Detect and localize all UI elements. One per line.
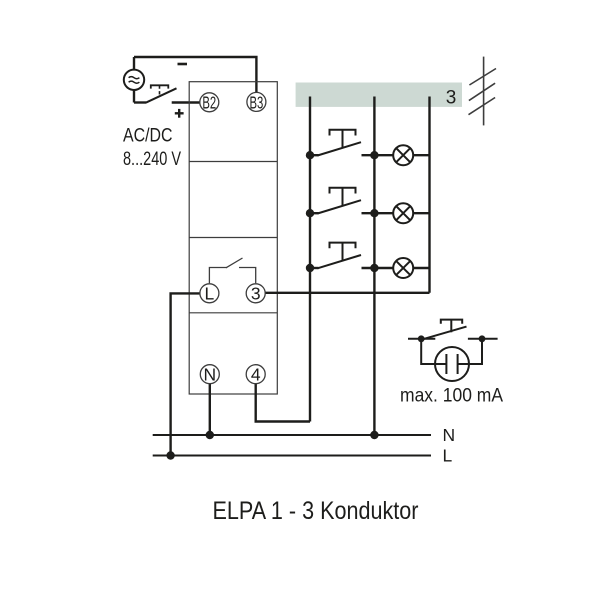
wire: terminal N to line N [209,384,211,435]
wire: terminal 4 to push buttons [256,384,310,422]
AC/DC source G1 [124,57,144,103]
junction S4 left [418,335,425,342]
bus bar: 3-conductor net [296,83,462,107]
junction S1 right [370,151,378,159]
wire: terminal L to line L [171,293,200,455]
line N [153,434,431,436]
svg-text:4: 4 [251,365,261,385]
lamp E1 [393,145,429,165]
junction S3 right [370,264,378,272]
wire: bus drop 2 (lamps left / N) [373,97,375,436]
push button S2 [310,188,393,214]
junction: N terminal on line N [206,431,214,439]
wire: bus drop 1 (to push buttons) [309,97,311,422]
device outline: ELPA relay unit [189,82,277,394]
svg-text:ELPA 1 - 3 Konduktor: ELPA 1 - 3 Konduktor [213,497,419,525]
wire: terminal 3 to lamp return [265,292,429,294]
minus polarity label [178,63,188,66]
wire: bus drop 3 (lamps right to terminal 3) [428,97,430,293]
svg-text:3: 3 [251,284,261,304]
lamp E3 [393,258,429,278]
svg-text:N: N [443,425,456,445]
svg-text:N: N [203,365,216,385]
junction S2 left [306,209,314,217]
plus polarity label [175,109,184,118]
illuminated push button S4 [408,320,498,364]
line L [153,455,431,457]
junction: bus drop 2 on line N [370,431,378,439]
svg-text:L: L [443,446,453,466]
switch S0 on supply [134,85,200,102]
svg-text:L: L [205,284,215,304]
terminal N [200,365,219,384]
svg-text:AC/DC: AC/DC [123,125,173,146]
terminal L [200,284,219,303]
lamp E2 [393,203,429,223]
svg-text:B3: B3 [250,92,264,112]
wire: top feed from AC source to B3 [134,57,256,93]
terminal 3 [246,284,265,303]
svg-text:3: 3 [446,87,457,108]
junction S1 left [306,151,314,159]
terminal 4 [246,365,265,384]
junction S2 right [370,209,378,217]
svg-text:max. 100 mA: max. 100 mA [400,386,503,407]
svg-text:8...240 V: 8...240 V [123,149,181,170]
junction: L terminal wire on line L [166,451,174,459]
push button S1 [310,130,393,156]
hatch marker: 3 conductors [469,57,497,126]
svg-text:B2: B2 [202,93,216,113]
terminal B2 [200,93,219,112]
glow lamp E4 in S4 [435,347,469,381]
actuator of S0 (dashed link) [151,85,169,88]
push button S3 [310,243,393,269]
relay contact between L and 3 [209,258,255,283]
junction S4 right [479,335,486,342]
junction S3 left [306,264,314,272]
terminal B3 [247,92,266,111]
